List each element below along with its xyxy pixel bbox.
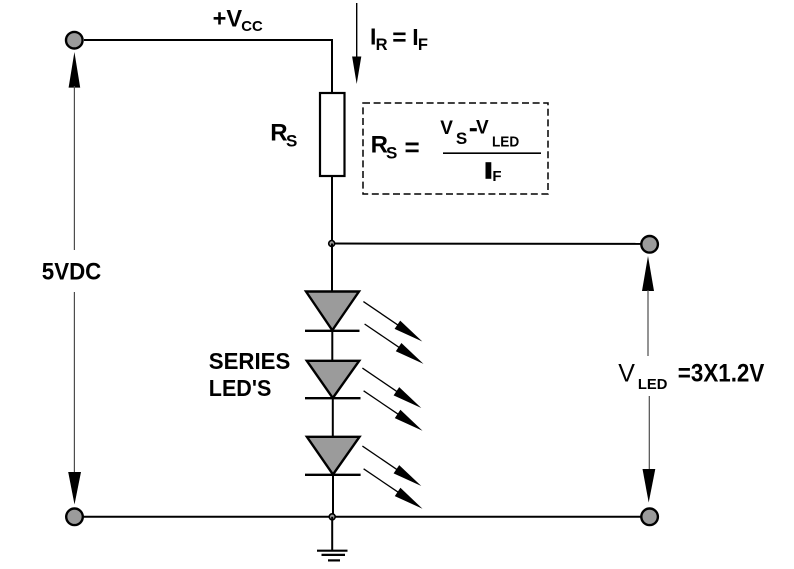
- svg-text:V: V: [440, 118, 453, 139]
- svg-text:V: V: [476, 118, 489, 139]
- LED D3: [305, 437, 361, 475]
- svg-text:SERIES: SERIES: [209, 348, 290, 374]
- LED D1: [305, 292, 360, 331]
- resistor RS: [320, 93, 345, 176]
- svg-text:LED'S: LED'S: [209, 375, 271, 401]
- svg-text:LED: LED: [492, 133, 519, 150]
- wire D1 to D2: [331, 331, 333, 361]
- label 5VDC: [38, 252, 108, 292]
- terminal top-right: [641, 236, 658, 253]
- wire resistor to node A: [331, 176, 333, 244]
- svg-text:S: S: [456, 129, 467, 148]
- wire node A to LED D1: [331, 244, 333, 293]
- LED D1 light arrows: [363, 302, 423, 364]
- svg-text:5VDC: 5VDC: [42, 259, 102, 286]
- node A junction: [329, 241, 335, 247]
- formula denominator IF: [486, 162, 492, 179]
- svg-text:CC: CC: [241, 18, 263, 35]
- wire +Vcc top rail: [84, 40, 332, 93]
- svg-text:F: F: [418, 36, 428, 54]
- wire D2 to D3: [332, 398, 334, 437]
- LED D2 light arrows: [362, 368, 422, 431]
- terminal top-left: [66, 32, 83, 49]
- svg-text:=: =: [392, 25, 406, 52]
- svg-text:LED: LED: [638, 376, 668, 393]
- svg-text:S: S: [386, 143, 397, 162]
- LED D2: [305, 361, 361, 398]
- svg-text:V: V: [618, 360, 635, 388]
- wire bottom rail: [83, 516, 642, 518]
- LED D3 light arrows: [362, 446, 422, 509]
- measure arrow 5VDC (left): [68, 52, 81, 505]
- wire D3 to bottom rail: [332, 475, 334, 517]
- svg-text:=: =: [405, 132, 420, 162]
- wire node A to right terminal: [332, 243, 642, 245]
- measure arrow VLED (right): [642, 256, 655, 503]
- ground: [317, 517, 348, 561]
- svg-text:F: F: [492, 168, 501, 185]
- terminal bottom-left: [66, 509, 83, 526]
- arrow IR (current direction): [352, 3, 361, 84]
- label VLED = 3X1.2V: [612, 358, 674, 396]
- svg-text:R: R: [376, 36, 388, 54]
- svg-text:S: S: [286, 131, 297, 150]
- terminal bottom-right: [641, 509, 658, 526]
- node B junction: [329, 514, 335, 520]
- formula box (dashed): [363, 103, 548, 194]
- formula fraction bar: [443, 152, 541, 154]
- svg-text:=3X1.2V: =3X1.2V: [678, 360, 765, 388]
- svg-text:+V: +V: [213, 6, 243, 33]
